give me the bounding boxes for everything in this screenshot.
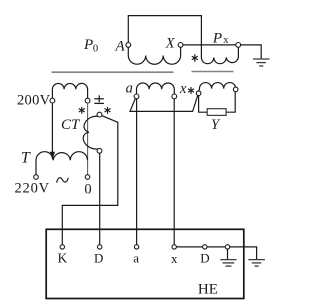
wire top bracket from A to Px primary start [128,16,201,58]
terminal D1 [98,245,102,249]
svg-text:x: x [179,81,187,97]
wire a to Px secondary (diagonal-horizontal-diagonal) [130,95,198,111]
terminal a [134,94,139,99]
winding Px primary [201,47,238,63]
HE box [46,229,244,298]
burden resistor Y [207,109,226,116]
svg-text:A: A [115,39,126,55]
label Px [212,30,229,46]
terminal K [60,245,64,249]
CT bottom terminal [97,148,102,153]
svg-text:0: 0 [93,43,98,54]
terminal gnd [225,245,229,249]
burden wires [199,96,208,113]
terminal 0 [85,175,90,180]
winding A-X (P0 primary) [128,47,180,64]
terminal D2 [203,245,207,249]
wire x down to HE [173,99,175,245]
wire 200V left terminal down to variac arrow [51,103,53,153]
svg-text:a: a [126,81,133,97]
svg-text:Y: Y [211,117,221,133]
ground top right [253,59,270,66]
terminal Px secondary right [233,87,238,92]
terminal A [126,43,131,48]
svg-text:K: K [58,251,68,266]
terminal 200V right [85,98,90,103]
svg-text:220V: 220V [15,181,50,197]
polarity mark * Px secondary [188,87,194,94]
svg-text:P: P [83,37,93,53]
svg-text:CT: CT [61,117,81,133]
polarity mark * CT right [105,107,111,114]
svg-text:a: a [133,251,139,266]
svg-text:x: x [223,35,229,46]
terminal Px secondary left [196,91,201,96]
wire CT top terminal to K [62,116,118,245]
wire a down to HE [136,99,138,245]
terminal x [172,94,177,99]
terminal 220V [34,175,39,180]
polarity mark * CT left [79,107,85,114]
CT winding [83,116,99,149]
svg-text:D: D [94,251,103,266]
ground HE internal [220,260,236,267]
autotransformer T winding [36,152,88,175]
winding Px secondary [199,83,236,91]
label ~ [57,178,69,183]
svg-text:0: 0 [84,182,91,198]
polarity mark ± [94,95,104,103]
winding a-x (P0 secondary 2) [137,83,175,94]
terminal Px [236,43,241,48]
wire X to Px terminal to ground [183,45,261,59]
terminal a (HE) [134,245,138,249]
winding 200V (P0 secondary) [52,83,87,98]
variac arrow head [50,152,55,160]
wire 200V right terminal down to T [87,103,89,175]
wire rail x-D-gnd to external ground [176,247,256,260]
terminal x (HE) [172,245,176,249]
core bar P0 [52,71,174,73]
ground external right [248,260,265,267]
wire CT bottom terminal to D [99,153,101,245]
terminal 200V left [50,98,55,103]
svg-text:D: D [200,251,209,266]
core bar Px [192,71,234,73]
svg-text:HE: HE [198,282,218,298]
terminal X [178,43,183,48]
svg-text:200V: 200V [17,92,51,108]
CT top terminal [97,112,102,117]
label P0 [83,37,98,54]
svg-text:T: T [21,150,31,167]
svg-text:x: x [171,251,178,266]
svg-text:P: P [212,30,222,46]
wire gnd terminal stub [227,249,229,259]
polarity mark * for Px primary [192,54,198,62]
svg-text:X: X [165,36,176,52]
